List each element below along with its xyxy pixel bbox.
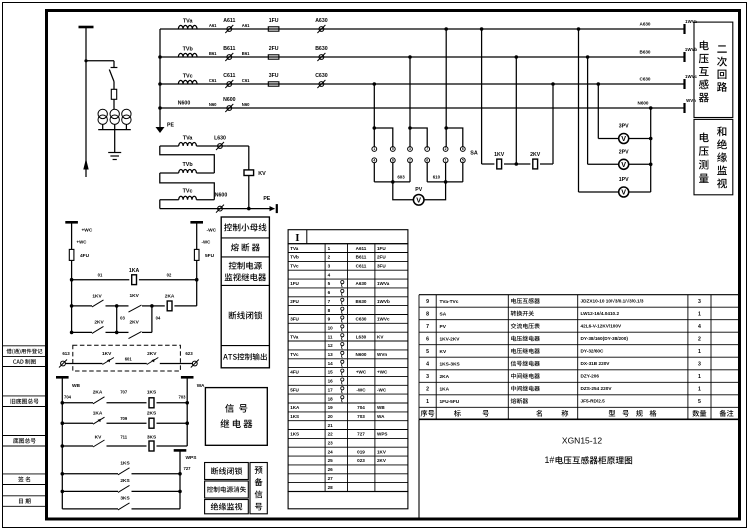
svg-text:22: 22 bbox=[328, 432, 334, 437]
svg-text:03: 03 bbox=[120, 316, 125, 321]
contact 2KV rung3 second bbox=[117, 332, 152, 339]
svg-text:1WVc: 1WVc bbox=[377, 317, 390, 322]
wire WB bus vertical bbox=[61, 377, 65, 509]
terminal N600 bbox=[225, 104, 233, 112]
svg-text:2PV: 2PV bbox=[619, 149, 629, 155]
relay KV bbox=[244, 170, 254, 176]
label 3FU bbox=[269, 73, 279, 79]
label he jueyuan jianshi bbox=[717, 126, 727, 188]
svg-text:5FU: 5FU bbox=[205, 253, 215, 259]
wire phase tap to SA at x=410 bbox=[408, 55, 427, 146]
svg-text:TVb: TVb bbox=[290, 255, 299, 260]
svg-text:TVa: TVa bbox=[290, 246, 299, 251]
label C61 right bbox=[242, 78, 250, 83]
svg-text:5: 5 bbox=[328, 281, 331, 286]
svg-text:N600: N600 bbox=[356, 352, 367, 357]
svg-text:C61: C61 bbox=[209, 78, 217, 83]
svg-text:TVc: TVc bbox=[183, 189, 193, 195]
svg-text:42L6-V-12KV/100V: 42L6-V-12KV/100V bbox=[581, 324, 623, 329]
svg-text:B61: B61 bbox=[209, 51, 217, 56]
label broken line blocking bbox=[211, 467, 242, 475]
busbar WA bbox=[181, 376, 194, 379]
label 2KV contact second bbox=[130, 319, 140, 325]
svg-text:3: 3 bbox=[328, 264, 331, 269]
label 613 bbox=[62, 351, 70, 356]
svg-text:-WC: -WC bbox=[377, 387, 387, 392]
label 3KS contact bbox=[120, 496, 130, 502]
wire incoming feeder drop bbox=[85, 27, 87, 177]
svg-text:2KA: 2KA bbox=[165, 293, 175, 299]
svg-text:1WVa: 1WVa bbox=[685, 19, 697, 24]
equipment list rows bbox=[426, 298, 701, 405]
wire rung1 control supply monitor bbox=[70, 278, 199, 282]
svg-text:KV: KV bbox=[377, 334, 384, 339]
svg-text:2: 2 bbox=[426, 386, 429, 392]
svg-text:703: 703 bbox=[357, 414, 365, 419]
svg-text:B630: B630 bbox=[640, 49, 651, 54]
label A611 bbox=[223, 18, 235, 24]
svg-text:N600: N600 bbox=[178, 100, 191, 106]
svg-text:1KS-3KS: 1KS-3KS bbox=[440, 361, 461, 367]
label C611 bbox=[223, 73, 235, 79]
label WPS bbox=[186, 455, 198, 461]
label 2KV ATS bbox=[147, 351, 157, 357]
label TVa residual bbox=[183, 135, 194, 141]
svg-text:V: V bbox=[621, 134, 626, 143]
label 1KV ATS bbox=[102, 351, 112, 357]
label 1WVc bbox=[685, 74, 698, 79]
label PE bbox=[167, 123, 174, 129]
wire left bus to rung3 bbox=[70, 280, 74, 335]
svg-text:TVa: TVa bbox=[290, 334, 299, 339]
label KV contact bbox=[95, 434, 102, 440]
terminal table header bbox=[288, 230, 408, 244]
svg-text:1FU: 1FU bbox=[377, 246, 386, 251]
svg-text:A61: A61 bbox=[209, 23, 217, 28]
legend broken line blocking label bbox=[229, 311, 262, 319]
label N600 left bbox=[178, 100, 191, 106]
ground PE for secondary neutral bbox=[156, 108, 165, 133]
svg-text:TVa: TVa bbox=[183, 18, 194, 24]
svg-text:5FU: 5FU bbox=[290, 387, 299, 392]
prepare signal legend box bbox=[205, 463, 268, 514]
wire L630 to KV relay bbox=[227, 146, 249, 170]
title block outline bbox=[419, 295, 739, 519]
label WB bbox=[72, 383, 81, 389]
selector switch SA contacts bbox=[372, 147, 465, 163]
svg-text:B630: B630 bbox=[315, 46, 328, 52]
svg-text:24: 24 bbox=[328, 449, 334, 454]
relay 2KV bbox=[533, 159, 538, 169]
legend stack box bbox=[221, 217, 269, 368]
svg-text:C630: C630 bbox=[640, 76, 651, 81]
svg-text:A61: A61 bbox=[242, 23, 250, 28]
svg-text:2KA: 2KA bbox=[93, 389, 103, 395]
svg-text:1PV: 1PV bbox=[619, 177, 629, 183]
svg-text:17: 17 bbox=[328, 387, 334, 392]
svg-text:TVa-TVc: TVa-TVc bbox=[440, 299, 459, 305]
svg-text:019: 019 bbox=[357, 449, 365, 454]
svg-text:C611: C611 bbox=[356, 264, 367, 269]
margin label CAD zhitu bbox=[13, 359, 36, 364]
label 1FU bbox=[269, 18, 279, 24]
svg-text:1WVb: 1WVb bbox=[377, 299, 390, 304]
label insulation monitoring bbox=[211, 503, 243, 510]
svg-text:1FU: 1FU bbox=[290, 281, 299, 286]
feeder arrow bbox=[83, 159, 88, 170]
svg-text:11: 11 bbox=[328, 334, 333, 339]
label 2KA contact bbox=[93, 389, 103, 395]
svg-text:8: 8 bbox=[328, 308, 331, 313]
fuse 5FU bbox=[194, 249, 199, 260]
label -WC bus bbox=[207, 227, 217, 233]
label 3PV bbox=[619, 124, 629, 130]
svg-text:3FU: 3FU bbox=[269, 73, 279, 79]
svg-text:1KA: 1KA bbox=[290, 405, 300, 410]
svg-text:02: 02 bbox=[167, 272, 172, 277]
svg-text:L630: L630 bbox=[214, 135, 226, 141]
title drawing name bbox=[545, 455, 633, 465]
svg-text:1WVa: 1WVa bbox=[377, 281, 390, 286]
relay 1KS bbox=[149, 398, 187, 408]
wire TVb left to TVc right bbox=[160, 173, 215, 200]
title XGN15-12 bbox=[562, 436, 602, 446]
label N600 residual bbox=[215, 192, 228, 198]
svg-text:WA: WA bbox=[197, 383, 205, 389]
label 1KS contact bbox=[120, 460, 130, 466]
svg-text:B611: B611 bbox=[223, 46, 235, 52]
svg-text:01: 01 bbox=[98, 272, 103, 277]
label 1KA bbox=[129, 268, 140, 274]
label B61 right bbox=[242, 51, 250, 56]
label I terminal group bbox=[295, 232, 299, 244]
svg-text:6: 6 bbox=[426, 159, 428, 163]
svg-text:3KS: 3KS bbox=[147, 434, 157, 440]
svg-text:28: 28 bbox=[328, 485, 334, 490]
label TVa bbox=[183, 18, 194, 24]
svg-text:5: 5 bbox=[462, 159, 464, 163]
wire -WC drop bbox=[196, 222, 198, 249]
svg-text:N600: N600 bbox=[215, 192, 228, 198]
busbar terminal 1WVb bbox=[683, 52, 685, 62]
winding TVc residual bbox=[160, 196, 215, 199]
svg-text:3: 3 bbox=[698, 299, 701, 305]
wire WPS vertical bbox=[178, 450, 182, 509]
label wire 707 bbox=[120, 389, 128, 394]
svg-text:7: 7 bbox=[426, 147, 428, 151]
svg-text:TVa: TVa bbox=[183, 135, 194, 141]
label WA bbox=[197, 383, 205, 389]
svg-text:2KV: 2KV bbox=[530, 152, 541, 158]
svg-text:V: V bbox=[621, 188, 626, 197]
svg-text:1KV: 1KV bbox=[494, 152, 505, 158]
svg-text:4: 4 bbox=[426, 361, 429, 367]
svg-text:26: 26 bbox=[328, 467, 334, 472]
svg-text:1: 1 bbox=[698, 349, 701, 355]
label wire 601 bbox=[125, 356, 133, 361]
10kV busbar bbox=[79, 26, 94, 29]
wire neutral row N600 bbox=[160, 107, 685, 109]
svg-text:TVb: TVb bbox=[183, 162, 194, 168]
svg-text:3: 3 bbox=[698, 361, 701, 367]
label N600 above terminal bbox=[223, 97, 236, 103]
svg-text:711: 711 bbox=[120, 434, 127, 439]
wire right bus rung1 to rung2 bbox=[196, 280, 198, 306]
wire TVa left to TVb right bbox=[160, 146, 215, 173]
label erci huilu bbox=[717, 45, 727, 91]
label prepare signal vertical bbox=[255, 466, 263, 510]
svg-text:1: 1 bbox=[698, 311, 701, 317]
svg-text:3KS: 3KS bbox=[120, 496, 130, 502]
terminal A630 bbox=[317, 25, 325, 33]
terminal table rows text bbox=[290, 246, 390, 490]
terminal B611 bbox=[225, 53, 233, 61]
svg-text:DX-31B 220V: DX-31B 220V bbox=[581, 361, 611, 366]
voltmeter 2PV bbox=[619, 159, 629, 169]
winding TVb secondary bbox=[178, 53, 197, 57]
voltmeter 1PV bbox=[619, 187, 629, 197]
label 04 bbox=[156, 316, 161, 321]
wire phase C to 2KV bbox=[540, 82, 555, 164]
label 1KA contact bbox=[93, 411, 103, 417]
primary fuse FU bbox=[111, 89, 116, 109]
svg-text:1: 1 bbox=[373, 147, 375, 151]
svg-text:1: 1 bbox=[698, 374, 701, 380]
label PE residual bbox=[263, 196, 270, 202]
svg-text:19: 19 bbox=[328, 405, 334, 410]
busbar terminal WVn bbox=[683, 103, 685, 113]
winding TVa residual bbox=[160, 143, 227, 146]
svg-text:B630: B630 bbox=[356, 299, 367, 304]
label 1WVa bbox=[685, 19, 697, 24]
terminal table body bbox=[288, 244, 408, 509]
wire phase tap to SA at x=446 bbox=[444, 27, 462, 146]
label 2PV bbox=[619, 149, 629, 155]
margin label qianming bbox=[18, 476, 30, 481]
svg-text:V: V bbox=[621, 160, 626, 169]
label 3KS bbox=[147, 434, 157, 440]
svg-text:2FU: 2FU bbox=[377, 255, 386, 260]
label 1KV contact bbox=[92, 293, 102, 299]
contact 1KV ATS bbox=[102, 358, 146, 365]
contact 2KV ATS bbox=[147, 358, 193, 365]
svg-text:23: 23 bbox=[328, 441, 334, 446]
wire KV to N600 junction bbox=[247, 176, 251, 211]
svg-text:14: 14 bbox=[328, 361, 334, 366]
wire phase B junction bbox=[504, 55, 530, 166]
svg-text:2KA: 2KA bbox=[440, 374, 450, 380]
contact 1KV rung2 bbox=[72, 300, 119, 308]
wire phase row A630 bbox=[160, 28, 685, 30]
label 2KS contact bbox=[120, 478, 130, 484]
svg-text:12: 12 bbox=[328, 343, 334, 348]
relay 2KA bbox=[152, 301, 197, 311]
label control supply loss bbox=[207, 486, 246, 492]
margin row lines bbox=[3, 346, 47, 507]
relay 2KS bbox=[149, 418, 187, 428]
junction dots on neutral vertical bbox=[158, 55, 162, 110]
contact KV rung insulation signal bbox=[62, 440, 146, 447]
margin label jie(tong)yongjian dengji bbox=[6, 349, 42, 355]
label wire 703 bbox=[179, 395, 187, 400]
svg-text:2KV: 2KV bbox=[377, 458, 387, 463]
wire WA bus vertical bbox=[185, 377, 189, 446]
svg-text:8: 8 bbox=[426, 311, 429, 317]
svg-text:04: 04 bbox=[156, 316, 161, 321]
signal relay label bbox=[220, 404, 252, 428]
svg-text:SA: SA bbox=[440, 311, 447, 317]
label C61 left bbox=[209, 78, 217, 83]
svg-text:WVn: WVn bbox=[686, 98, 696, 103]
relay 1KV bbox=[497, 159, 502, 169]
node 04 vertical bbox=[150, 304, 154, 332]
svg-text:2FU: 2FU bbox=[290, 299, 299, 304]
legend fuse label bbox=[231, 243, 260, 251]
ground symbol primary bbox=[108, 153, 121, 160]
label A61 left bbox=[209, 23, 217, 28]
wire TV star point bbox=[98, 124, 131, 152]
svg-text:1#: 1# bbox=[545, 455, 555, 465]
svg-text:16: 16 bbox=[328, 379, 334, 384]
wire secondary neutral bus vertical bbox=[159, 29, 161, 108]
svg-text:1KA: 1KA bbox=[93, 411, 103, 417]
terminal C630 bbox=[317, 80, 325, 88]
wire phase C to 3PV bbox=[597, 82, 619, 138]
label 623 bbox=[185, 351, 193, 356]
label B61 left bbox=[209, 51, 217, 56]
svg-text:8: 8 bbox=[392, 159, 394, 163]
svg-text:WPS: WPS bbox=[186, 455, 198, 461]
contact 2KS prepare signal bbox=[62, 485, 180, 492]
svg-text:C61: C61 bbox=[242, 78, 250, 83]
label +WC wire bbox=[77, 239, 88, 244]
svg-text:1FU: 1FU bbox=[269, 18, 279, 24]
svg-text:1KA: 1KA bbox=[440, 386, 450, 392]
svg-text:A630: A630 bbox=[356, 281, 367, 286]
busbar terminal 1WVc bbox=[683, 79, 685, 89]
winding TVb residual bbox=[160, 170, 215, 173]
svg-text:PE: PE bbox=[263, 196, 270, 202]
label wire 711 bbox=[120, 434, 127, 439]
wire phase A to 1PV bbox=[577, 27, 619, 192]
svg-text:DZS-254 220V: DZS-254 220V bbox=[581, 386, 613, 391]
svg-text:4: 4 bbox=[373, 159, 375, 163]
svg-text:KV: KV bbox=[258, 171, 266, 177]
label dianya huganqi bbox=[699, 40, 709, 102]
wire 5FU to rung1 bbox=[196, 261, 198, 280]
label 1KV contact second bbox=[130, 293, 140, 299]
fuse 3FU bbox=[268, 82, 279, 86]
svg-text:20: 20 bbox=[328, 414, 334, 419]
svg-text:4: 4 bbox=[328, 272, 331, 277]
label 1PV bbox=[619, 177, 629, 183]
svg-text:2KS: 2KS bbox=[147, 411, 157, 417]
svg-text:TVc: TVc bbox=[183, 73, 193, 79]
busbar WB bbox=[56, 376, 69, 379]
wire label B630 right end bbox=[640, 49, 651, 54]
contact 2KV rung3 bbox=[72, 326, 117, 333]
svg-text:-WC: -WC bbox=[356, 387, 366, 392]
voltmeter PV bbox=[413, 195, 424, 206]
label wire 01 bbox=[98, 272, 103, 277]
svg-text:JF5-RD/2.5: JF5-RD/2.5 bbox=[581, 399, 606, 404]
svg-text:+WC: +WC bbox=[356, 370, 367, 375]
wire 1PV to neutral riser bbox=[629, 106, 653, 192]
svg-text:B611: B611 bbox=[356, 255, 367, 260]
svg-text:2KS: 2KS bbox=[120, 478, 130, 484]
svg-text:1: 1 bbox=[426, 399, 429, 405]
svg-text:4FU: 4FU bbox=[80, 253, 90, 259]
svg-text:WPS: WPS bbox=[377, 432, 387, 437]
svg-text:4: 4 bbox=[698, 324, 701, 330]
svg-text:2: 2 bbox=[409, 159, 411, 163]
svg-text:3FU: 3FU bbox=[377, 264, 386, 269]
svg-text:5: 5 bbox=[698, 399, 701, 405]
svg-text:LW12-16/4.0410.2: LW12-16/4.0410.2 bbox=[581, 311, 620, 316]
svg-text:727: 727 bbox=[184, 466, 192, 471]
margin label ditu zonghao bbox=[13, 438, 36, 443]
svg-text:KV: KV bbox=[440, 349, 447, 355]
voltage transformer TV primary (3 windings) bbox=[98, 109, 131, 124]
svg-text:A611: A611 bbox=[223, 18, 235, 24]
svg-text:1KV: 1KV bbox=[130, 293, 140, 299]
terminal C611 bbox=[225, 80, 233, 88]
busbar terminal 1WVa bbox=[683, 24, 685, 34]
winding TVa secondary bbox=[178, 25, 197, 29]
svg-text:L630: L630 bbox=[356, 334, 367, 339]
wire label C630 right end bbox=[640, 76, 651, 81]
svg-text:25: 25 bbox=[328, 458, 334, 463]
svg-text:N60: N60 bbox=[242, 102, 250, 107]
label wire 704 bbox=[64, 395, 72, 400]
svg-text:2: 2 bbox=[328, 255, 331, 260]
svg-text:V: V bbox=[416, 195, 421, 204]
svg-text:C630: C630 bbox=[356, 317, 367, 322]
label wire 709 bbox=[120, 416, 128, 421]
margin label riqi bbox=[19, 498, 31, 503]
label TVc residual bbox=[183, 189, 193, 195]
svg-text:10: 10 bbox=[328, 326, 334, 331]
svg-text:5: 5 bbox=[392, 147, 394, 151]
terminal L630 bbox=[216, 142, 224, 150]
svg-text:C611: C611 bbox=[223, 73, 235, 79]
svg-text:6: 6 bbox=[462, 147, 464, 151]
svg-text:023: 023 bbox=[357, 458, 365, 463]
svg-text:9: 9 bbox=[426, 299, 429, 305]
wire +WC drop bbox=[71, 222, 73, 249]
label 03 bbox=[120, 316, 125, 321]
svg-text:707: 707 bbox=[120, 389, 128, 394]
label 5FU bbox=[205, 253, 215, 259]
svg-text:3: 3 bbox=[409, 147, 411, 151]
legend ATS output label bbox=[223, 353, 267, 360]
svg-text:WVn: WVn bbox=[377, 352, 387, 357]
terminal A611 bbox=[225, 25, 233, 33]
svg-text:1KV: 1KV bbox=[377, 449, 387, 454]
label wire 727 bbox=[184, 466, 192, 471]
svg-text:1KV-2KV: 1KV-2KV bbox=[440, 336, 461, 342]
svg-text:JDZX10-10 10/√3/0.1/√3/0.1/3: JDZX10-10 10/√3/0.1/√3/0.1/3 bbox=[581, 299, 644, 304]
label TVc bbox=[183, 73, 193, 79]
svg-text:2KV: 2KV bbox=[94, 319, 104, 325]
svg-text:2FU: 2FU bbox=[269, 46, 279, 52]
label 4FU bbox=[80, 253, 90, 259]
svg-text:7: 7 bbox=[426, 324, 429, 330]
label C630 bbox=[315, 73, 328, 79]
wire SA left group to PV bbox=[374, 163, 413, 200]
svg-text:1KA: 1KA bbox=[129, 268, 140, 274]
svg-text:18: 18 bbox=[328, 396, 334, 401]
